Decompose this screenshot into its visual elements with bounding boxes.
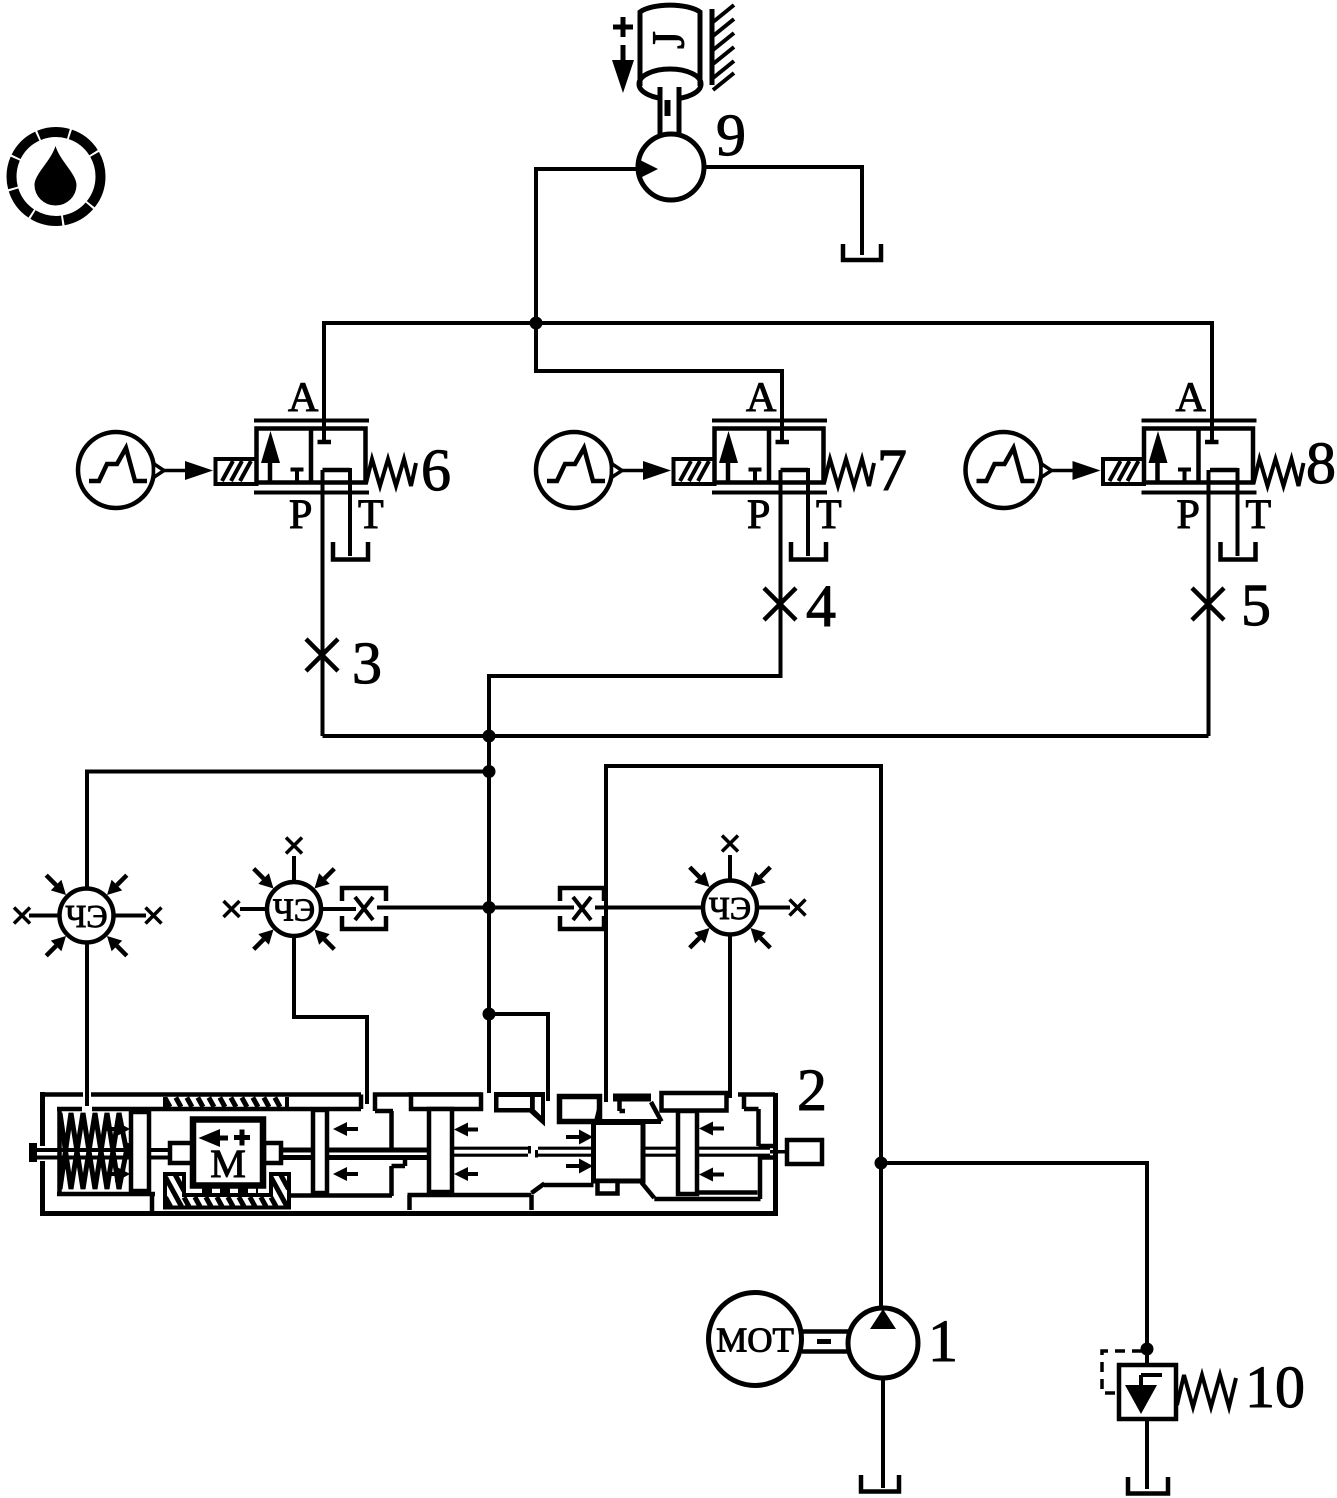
- svg-text:M: M: [210, 1141, 246, 1186]
- servo valve block 2 : rod: [29, 1143, 770, 1162]
- junction dot lower: [483, 1008, 496, 1021]
- shutoff X 5: [1192, 588, 1224, 620]
- torque motor module: [170, 1120, 281, 1191]
- pump suction line: [881, 1378, 885, 1488]
- svg-text:6: 6: [421, 437, 451, 503]
- down arrow: [612, 45, 634, 93]
- block top wall left: [42, 1095, 361, 1110]
- staircase wall: [289, 1093, 481, 1197]
- nozzle left: [494, 1092, 545, 1127]
- bottom middle walls: [408, 1184, 594, 1211]
- svg-text:9: 9: [716, 102, 746, 168]
- sensor circle 3: [703, 855, 790, 1098]
- block outer shell: [40, 1092, 778, 1214]
- arrows at piston 2: [333, 1122, 358, 1181]
- arrows at piston 3: [699, 1122, 724, 1182]
- motor inlet arrowhead: [640, 160, 658, 178]
- proportional valve 8: [966, 375, 1304, 560]
- wire motor down to bus: [534, 167, 538, 323]
- wire bowtie2 to sensor 3: [595, 906, 703, 910]
- wire left branch: [87, 772, 489, 890]
- motor-pump shaft: [802, 1332, 848, 1352]
- X terminators sensor 2: [224, 901, 240, 917]
- tank top right: [843, 244, 881, 260]
- pilot dashed line: [1102, 1351, 1142, 1393]
- proportional valve 7: [536, 375, 874, 560]
- piston rod of cylinder: [660, 87, 679, 137]
- junction dot: [483, 765, 496, 778]
- pump pressure line: [879, 1163, 883, 1310]
- wire branch to nozzle: [489, 1014, 548, 1101]
- junction dot pump line: [875, 1157, 888, 1170]
- arrows into pilot block: [566, 1130, 593, 1174]
- svg-text:8: 8: [1306, 430, 1336, 496]
- svg-text:10: 10: [1245, 1354, 1305, 1420]
- piston 3: [678, 1111, 697, 1194]
- plus mark: [613, 17, 633, 37]
- electric motor MOT: [709, 1293, 802, 1386]
- wire bowtie1 to center: [377, 906, 489, 910]
- top wall hatch: [165, 1097, 287, 1108]
- wire bus to valve 6 A: [322, 321, 326, 441]
- relief tank: [1128, 1477, 1168, 1494]
- nozzle right: [560, 1097, 662, 1130]
- svg-text:ЧЭ: ЧЭ: [273, 892, 315, 928]
- wire motor left: [536, 167, 642, 171]
- wire motor right: [704, 167, 862, 255]
- svg-text:МОТ: МОТ: [716, 1321, 794, 1360]
- sensor circle 2: [240, 856, 367, 1104]
- junction dot: [530, 317, 543, 330]
- X terminators sensor 1: [14, 908, 30, 924]
- chamber arrows right: [103, 1121, 130, 1182]
- sensor 1 inward arrows: [46, 875, 127, 956]
- hydraulic motor 9: [638, 134, 704, 200]
- X terminators sensor 3: [790, 900, 806, 916]
- wire to relief valve: [881, 1163, 1147, 1365]
- pump tank: [861, 1475, 899, 1492]
- valve 8 P line: [1207, 470, 1211, 736]
- spring chamber inner box: [57, 1107, 155, 1212]
- coupling bowtie 1: [342, 888, 386, 929]
- svg-text:7: 7: [877, 437, 907, 503]
- chamber spring crossed: [60, 1113, 128, 1189]
- output rod right: [770, 1140, 822, 1164]
- valve 7 P line: [489, 470, 781, 736]
- coupling bowtie 2: [560, 888, 604, 929]
- sensor 3 inward arrows: [690, 867, 771, 948]
- supply loop wire: [606, 766, 881, 1163]
- svg-text:ЧЭ: ЧЭ: [709, 890, 751, 926]
- junction dot relief: [1141, 1343, 1154, 1356]
- pressure bus wire: [323, 734, 1209, 738]
- svg-text:ЧЭ: ЧЭ: [66, 898, 108, 934]
- svg-text:J: J: [643, 31, 694, 49]
- wire bus to valve 8 A: [1210, 321, 1214, 441]
- relief spring: [1177, 1375, 1236, 1407]
- block top wall right: [613, 1093, 727, 1122]
- top bus wire: [324, 321, 1212, 325]
- spool piston big T: [411, 1095, 481, 1193]
- piston 2 slab: [313, 1110, 327, 1193]
- pump 1: [848, 1308, 918, 1378]
- svg-text:5: 5: [1241, 572, 1271, 638]
- junction dot mid: [483, 901, 496, 914]
- rod coupling notch: [528, 1145, 538, 1158]
- svg-text:3: 3: [352, 630, 382, 696]
- load cylinder J (inertia load): [639, 5, 701, 99]
- relief outlet line: [1145, 1419, 1149, 1489]
- wire center to bowtie2: [489, 906, 574, 910]
- shutoff X 3: [306, 639, 338, 671]
- valve 6 P line: [321, 470, 325, 736]
- wire bus to valve 7 A: [536, 323, 782, 442]
- arrows at spool: [454, 1123, 478, 1182]
- sensor circle 1: [29, 889, 146, 1107]
- junction dot: [483, 730, 496, 743]
- svg-text:4: 4: [806, 573, 836, 639]
- wire bus down: [487, 736, 491, 1093]
- right chamber walls: [654, 1095, 775, 1200]
- motor mount hatched cradle: [165, 1174, 289, 1208]
- relief valve 10: [1119, 1365, 1176, 1419]
- logo water-drop emblem: [12, 132, 101, 221]
- svg-text:1: 1: [928, 1308, 958, 1374]
- sensor 2 inward arrows: [254, 869, 335, 950]
- svg-text:2: 2: [797, 1057, 827, 1123]
- proportional valve 6: [78, 375, 416, 560]
- pilot stage block: [594, 1123, 655, 1199]
- shutoff X 4: [764, 588, 796, 620]
- fixed wall hatching: [712, 5, 734, 90]
- piston 1: [131, 1112, 149, 1191]
